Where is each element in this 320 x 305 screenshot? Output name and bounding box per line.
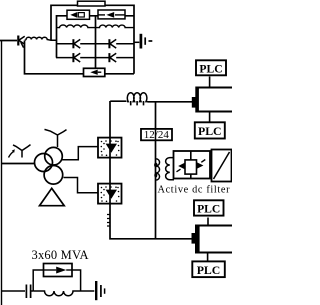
svg-text:PLC: PLC (198, 124, 222, 138)
svg-text:PLC: PLC (197, 203, 220, 216)
svg-text:12/24: 12/24 (144, 129, 170, 141)
svg-text:Active dc filter: Active dc filter (158, 184, 231, 195)
svg-text:PLC: PLC (197, 263, 221, 277)
svg-text:3x60 MVA: 3x60 MVA (32, 248, 89, 262)
svg-text:PLC: PLC (199, 62, 222, 75)
